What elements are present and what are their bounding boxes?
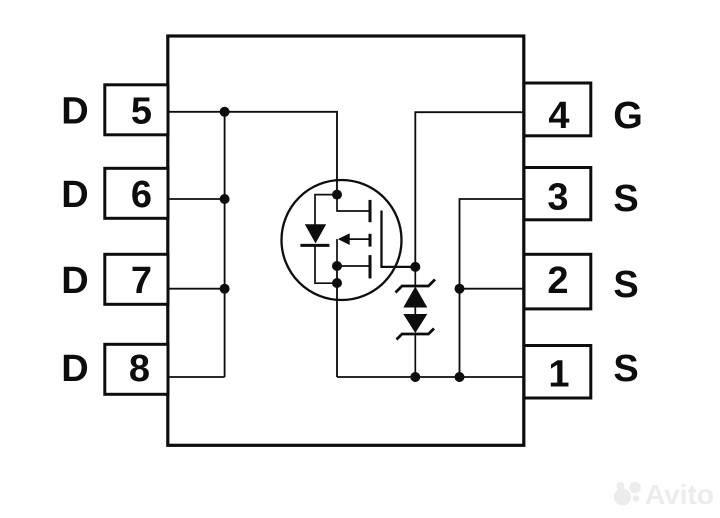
svg-text:D: D [61,348,88,390]
wire left drain bus [224,112,226,377]
pin 8 box [105,344,168,394]
junction dot gate node [410,262,420,272]
junction dot pin5 bus [220,107,230,117]
svg-text:3: 3 [547,177,568,219]
wire zener midpoint [414,308,416,315]
svg-text:S: S [613,178,638,220]
Avito watermark logo bottom-right circle [633,495,639,501]
pin 3 box [524,168,591,220]
zener Z2 triangle (pointing down) [403,314,427,333]
body diode D1 triangle [305,224,326,243]
wire pin7 stub [168,288,225,290]
pin 5 box [105,85,168,135]
svg-text:4: 4 [548,95,569,137]
pin 4 box [524,83,591,136]
svg-text:1: 1 [548,354,569,396]
svg-text:D: D [61,91,88,133]
svg-text:S: S [613,264,638,306]
svg-text:S: S [613,348,638,390]
svg-text:D: D [61,260,88,302]
Q1 gate electrode and wire to gate node [382,211,416,267]
svg-text:6: 6 [131,174,152,216]
svg-text:5: 5 [131,91,152,133]
junction dot source node [332,261,342,271]
wire pin8 stub [168,376,225,378]
zener Z2 cathode bar (bottom, bent ends) [397,329,435,340]
junction dot right bus on rail [455,372,465,382]
wire gate node to zener Z1 [414,267,416,287]
junction dot zener on rail [410,372,420,382]
Q1 channel bar (body segment) [369,234,372,247]
pin 7 box [105,254,168,304]
Q1 channel bar (drain segment) [369,200,372,222]
wire Q1 source arm [337,265,369,267]
wire bottom source rail to pin1 [337,376,524,378]
wire pin3 stub and right source bus [460,199,525,377]
IC body U1 (SO-8 package outline) [168,36,524,445]
svg-text:7: 7 [131,260,152,302]
Q1 channel bar (source segment) [369,255,372,278]
transistor Q1 envelope circle [282,180,402,300]
wire drain stub inside Q1 [337,195,369,211]
wire body diode branch (top) [315,195,337,225]
wire body diode branch (bottom) [315,245,337,283]
pin 2 box [524,254,591,309]
pin 6 box [105,168,168,218]
wire pin5 to drain node, drops to MOSFET drain [168,112,337,195]
wire pin6 stub [168,198,225,200]
junction dot pin2 bus [455,284,465,294]
svg-text:2: 2 [547,260,568,302]
wire gate node up to pin4 [415,112,524,267]
Avito watermark logo big circle [614,489,631,506]
wire MOSFET source drop to rail [336,266,338,377]
svg-text:8: 8 [129,348,150,390]
svg-text:D: D [61,174,88,216]
zener Z1 cathode bar (top, bent ends) [396,280,436,293]
svg-text:Avito: Avito [645,479,714,510]
svg-text:G: G [613,95,643,137]
Q1 substrate arrow head [338,233,350,245]
junction dot pin7 bus [220,284,230,294]
pin 1 box [524,346,591,399]
Avito watermark logo top-left circle [617,482,625,490]
wire zener Z2 to source rail [414,334,416,377]
Avito watermark logo top-right circle [629,482,641,494]
junction dot pin6 bus [220,194,230,204]
wire pin2 stub [460,288,525,290]
junction dot drain node [332,190,342,200]
body diode D1 cathode bar [300,244,329,247]
junction dot diode return node [332,278,342,288]
zener Z1 triangle (pointing up) [403,287,427,308]
wire Q1 body-to-source tie [336,239,338,266]
wire Q1 body arrow connection [349,238,369,240]
